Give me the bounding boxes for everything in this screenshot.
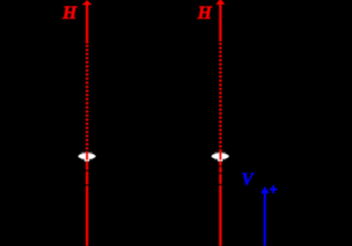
wire H2 lower dash a <box>219 161 222 166</box>
wire H1 through lens <box>86 152 89 161</box>
plus sign (positive charge) vertical bar <box>272 185 274 193</box>
velocity arrow V shaft <box>264 193 266 246</box>
lens L1 right tick <box>91 158 93 161</box>
lens L2 back rim <box>215 152 226 153</box>
lens L2 right tick <box>224 158 226 161</box>
svg-text:H: H <box>62 3 78 23</box>
svg-text:H: H <box>197 3 213 23</box>
wire H2 solid upper segment <box>219 0 222 41</box>
plus sign (positive charge) horizontal bar <box>270 188 277 190</box>
wire H1 solid lower segment <box>86 186 89 246</box>
wire H1 lower dash b <box>86 171 89 184</box>
wire H2 lower dash b <box>219 167 222 173</box>
wire H2 lower dash c <box>219 174 222 184</box>
lens L2 stem <box>218 159 223 162</box>
wire H2 solid lower segment <box>219 185 222 246</box>
wire H1 solid upper segment <box>86 2 89 44</box>
lens L1 back rim <box>81 152 92 153</box>
wire H1 dotted segment <box>86 45 89 152</box>
wire H2 dotted segment <box>219 43 222 152</box>
lens L1 stem <box>84 159 89 162</box>
velocity arrow V head <box>261 186 270 193</box>
wire H2 through lens <box>219 152 222 161</box>
field line H2 arrowhead (clipped at top) <box>216 0 225 4</box>
lens L1 left tick <box>81 158 83 161</box>
lens L2 body <box>211 153 229 159</box>
svg-text:V: V <box>241 169 255 189</box>
lens L2 left tick <box>215 158 217 161</box>
field line H1 arrowhead <box>82 0 92 5</box>
wire H1 lower dash a <box>86 161 89 170</box>
lens L1 body <box>78 153 96 159</box>
